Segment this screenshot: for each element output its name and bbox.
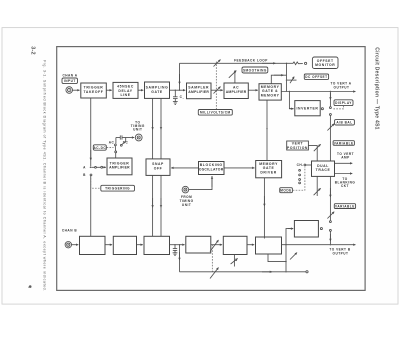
block memory gate driver: [256, 161, 282, 178]
pot arrow B dc offset: [290, 253, 297, 260]
node display switch tap: [330, 91, 331, 92]
svg-text:INVERTER: INVERTER: [297, 107, 319, 111]
asterisk mark: [29, 285, 32, 288]
pot arrow at AC amplifier gain: [229, 71, 237, 78]
connector to timing unit: [135, 134, 142, 141]
svg-text:Circuit Description — Type 4S1: Circuit Description — Type 4S1: [374, 47, 380, 130]
wire B output line: [282, 244, 356, 246]
wire pole to trigger amplifier: [115, 153, 117, 158]
pot arrow B feedback: [210, 268, 219, 279]
svg-text:AMPLIFIER: AMPLIFIER: [226, 90, 247, 94]
wire b2-b3: [137, 244, 143, 246]
block vert position: [287, 141, 309, 150]
svg-text:AC: AC: [109, 140, 115, 144]
diagram frame: [57, 47, 365, 291]
wire below dual trace left: [316, 176, 318, 196]
connector J1 (CHAN A INPUT): [66, 87, 73, 94]
switch contact lower: [329, 114, 331, 116]
block display: [334, 100, 353, 106]
pot arrow below dual trace: [314, 188, 321, 195]
rail variable upper: [329, 141, 331, 161]
block blocking oscillator: [199, 162, 225, 175]
wire B dc offset drop: [285, 245, 287, 272]
svg-text:VARIABLE: VARIABLE: [335, 205, 355, 209]
block B inverter: [294, 221, 318, 238]
svg-text:UNIT: UNIT: [182, 203, 191, 207]
wire dual trace to vert amp: [335, 162, 353, 164]
terminal to offset monitor: [305, 62, 307, 64]
wire sampler amp to ac amp: [211, 89, 223, 91]
wire trigger takeoff down to A contact: [90, 98, 92, 166]
label A/B BAL: [335, 120, 355, 125]
block B ac amplifier: [223, 236, 247, 254]
svg-text:OUTPUT: OUTPUT: [333, 252, 349, 256]
wire input B: [72, 244, 79, 246]
block B sampler amplifier: [186, 236, 211, 253]
svg-text:A: A: [83, 166, 86, 170]
wire B memory loop: [268, 254, 286, 262]
svg-text:AMP: AMP: [341, 156, 349, 160]
wire display rail upper: [329, 92, 331, 107]
wire dc offset stub: [287, 79, 297, 81]
svg-text:DC OFFSET: DC OFFSET: [305, 75, 327, 79]
wire bal rail: [329, 116, 331, 141]
mode switch pole: [304, 164, 306, 166]
strobe line left upper: [152, 98, 154, 158]
wire timing to blocking osc: [189, 176, 212, 190]
wire AC amp gain stub: [234, 70, 236, 83]
svg-text:3-2: 3-2: [30, 46, 36, 55]
label box TRIGGERING: [101, 185, 135, 191]
wire memory gate to driver: [266, 100, 268, 160]
pot arrow variable lower: [327, 212, 334, 219]
node feedback junction: [286, 63, 287, 64]
svg-text:AMPLIFIER: AMPLIFIER: [188, 90, 209, 94]
node inverter tap: [289, 91, 290, 92]
contact A: [95, 166, 97, 168]
svg-text:MILLIVOLTS/CM: MILLIVOLTS/CM: [200, 111, 231, 115]
mode contacts: [299, 169, 301, 171]
contact DC: [120, 144, 122, 146]
svg-text:FEEDBACK LOOP: FEEDBACK LOOP: [234, 58, 268, 62]
junction at A: [90, 167, 92, 169]
svg-text:VARIABLE: VARIABLE: [334, 141, 354, 145]
svg-text:LINE: LINE: [120, 93, 130, 97]
wire b1-b2: [105, 244, 112, 246]
node B Cs: [174, 244, 175, 245]
block sampler amplifier: [187, 83, 212, 99]
ground B Cs: [173, 252, 178, 254]
rail contacts above B output: [329, 221, 331, 223]
rail below dual trace: [329, 176, 331, 220]
ground below Cs: [173, 101, 178, 103]
svg-text:AMPLIFIER: AMPLIFIER: [109, 166, 130, 170]
svg-text:A/B BAL: A/B BAL: [336, 121, 352, 125]
svg-text:CKT: CKT: [341, 184, 349, 188]
svg-text:DISPLAY: DISPLAY: [335, 101, 352, 105]
svg-text:OSCILLATOR: OSCILLATOR: [199, 167, 224, 171]
label MILLIVOLTS/CM: [198, 110, 232, 116]
offset monitor tap squiggle: [287, 62, 303, 65]
svg-text:MONITOR: MONITOR: [315, 63, 335, 67]
dashed link to triggering: [91, 178, 100, 188]
inverter output contact: [321, 108, 323, 110]
svg-text:AC-DC: AC-DC: [93, 146, 106, 150]
wire dual trace to blanking: [335, 173, 353, 175]
wire B contact down to channel B: [90, 176, 92, 237]
svg-text:INPUT: INPUT: [64, 79, 76, 83]
switch contact upper: [329, 107, 331, 109]
pot arrow dc offset: [290, 77, 294, 84]
wire ac amp to memory gate: [248, 89, 257, 91]
wire B feedback drop: [179, 245, 181, 272]
wire B bottom feedback line: [180, 271, 306, 273]
svg-text:MODE: MODE: [280, 189, 291, 193]
wire to inverter: [289, 92, 293, 109]
node at Cs: [175, 90, 176, 91]
svg-text:CHAN B: CHAN B: [62, 229, 77, 233]
wire pole to trigger amp: [103, 166, 106, 168]
wire b3 to b4: [170, 244, 185, 246]
block B memory gate & memory: [256, 237, 282, 254]
svg-text:Fig. 3-1. Simplified Block Dia: Fig. 3-1. Simplified Block Diagram of Ty…: [43, 60, 47, 292]
label box AC-DC: [93, 145, 106, 150]
strobe line right lower: [160, 175, 162, 236]
wire blocking osc to memory gate driver: [224, 167, 255, 169]
pot arrow b4 output: [210, 240, 219, 252]
svg-text:DRIVER: DRIVER: [260, 170, 276, 174]
dashed gang line from millivolts/cm: [215, 62, 217, 110]
wire dc branch: [122, 138, 126, 145]
wire sampling gate to sampler amplifier: [170, 89, 186, 91]
switch pole trigger coupling: [115, 151, 117, 153]
wire b4-b5: [211, 244, 222, 246]
pot arrow a/b bal: [327, 124, 334, 131]
svg-text:CHAN A: CHAN A: [62, 74, 77, 78]
dashed link ac-dc coupling: [107, 147, 114, 149]
wire blocking osc to snap off: [171, 167, 198, 169]
wire b5-b6: [247, 244, 254, 246]
B feedback terminal: [306, 271, 308, 273]
wire output line to vert A: [281, 91, 355, 93]
pot arrow on feedback line (millivolts/cm): [214, 60, 221, 67]
svg-text:TAKEOFF: TAKEOFF: [84, 90, 104, 94]
pot arrow below b5: [231, 258, 238, 264]
block B sampling gate: [144, 236, 170, 254]
wire vert position to dual trace: [308, 146, 317, 161]
pot arrow vert position: [314, 144, 321, 151]
svg-text:OUTPUT: OUTPUT: [334, 86, 350, 90]
wire feedback riser: [179, 63, 181, 90]
block inverter: [295, 101, 320, 116]
wire delay line to sampling gate: [138, 89, 143, 91]
svg-text:TRIGGERING: TRIGGERING: [105, 187, 130, 191]
wire feedback loop horizontal: [180, 62, 287, 64]
label VARIABLE upper: [333, 141, 354, 146]
node feedback tap: [179, 90, 180, 91]
wire stub below b5: [233, 255, 235, 267]
block 45nsec delay line: [113, 82, 138, 98]
wire ac contact riser: [115, 138, 117, 144]
svg-text:GATE: GATE: [151, 90, 163, 94]
svg-text:MEMORY: MEMORY: [261, 93, 280, 97]
wire to B inverter: [286, 229, 293, 245]
svg-text:UNIT: UNIT: [133, 128, 142, 132]
svg-text:SMOOTHING: SMOOTHING: [243, 69, 267, 73]
block trigger takeoff: [81, 83, 107, 98]
wire feedback pickoff vertical: [286, 63, 288, 91]
capacitor B Cs: [174, 245, 176, 249]
dashed link display to switch: [333, 106, 344, 109]
wire to timing connector with coupling cap: [116, 137, 120, 139]
contact AC: [115, 144, 117, 146]
B inverter output contact: [320, 228, 322, 230]
block trigger amplifier: [107, 158, 132, 175]
block ac amplifier: [224, 83, 248, 99]
block sampling gate: [145, 82, 170, 98]
node B feedback tap: [179, 244, 180, 245]
strobe line right upper: [160, 98, 162, 158]
block memory gate & memory: [259, 84, 281, 100]
dashed gang line channel B attenuator: [211, 245, 213, 272]
pot arrow on sampler output: [214, 87, 221, 94]
switch pole trigger source: [101, 166, 103, 168]
block snap off: [146, 159, 170, 176]
svg-text:TRACE: TRACE: [316, 168, 331, 172]
label DC OFFSET: [304, 74, 328, 79]
svg-text:OFF: OFF: [154, 166, 163, 170]
block dual trace: [312, 161, 335, 176]
svg-text:B: B: [83, 173, 86, 177]
block B trigger takeoff: [80, 236, 106, 254]
block offset monitor: [312, 57, 338, 69]
connector J2 (CHAN B INPUT): [65, 242, 71, 248]
INPUT label box: [62, 78, 78, 84]
wire driver down: [263, 178, 265, 239]
wire smoothing branch: [271, 75, 286, 84]
block B delay line: [113, 236, 136, 254]
contact B: [90, 174, 92, 176]
svg-text:CH-: CH-: [297, 163, 304, 167]
connector from timing unit: [182, 186, 189, 193]
label box MODE: [280, 188, 293, 193]
dashed link mode switch: [293, 167, 305, 190]
label VARIABLE lower: [334, 204, 355, 209]
strobe line left lower: [152, 175, 154, 236]
label SMOOTHING: [242, 67, 268, 73]
node B inverter tap: [285, 244, 286, 245]
svg-text:POSITION: POSITION: [287, 146, 308, 150]
capacitor Cs: [174, 90, 176, 97]
wire takeoff to delay line: [106, 89, 112, 91]
wire input to trigger takeoff: [72, 89, 80, 91]
svg-text:s: s: [183, 98, 184, 100]
